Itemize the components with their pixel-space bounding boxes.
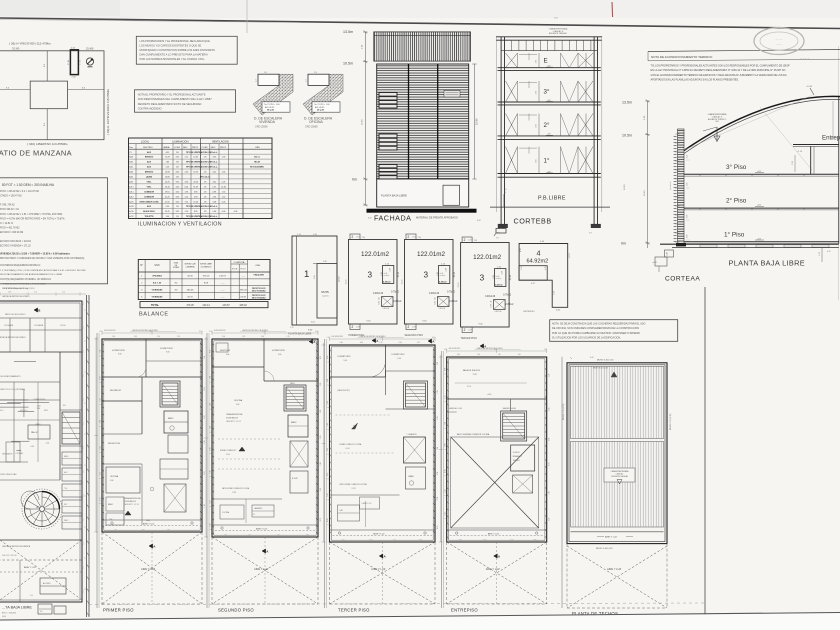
svg-text:300 cm: 300 cm	[254, 157, 260, 159]
svg-text:61.09: 61.09	[193, 186, 198, 188]
svg-text:2.40: 2.40	[327, 423, 329, 426]
svg-text:15.10: 15.10	[458, 282, 460, 288]
svg-text:1/5: 1/5	[204, 181, 207, 183]
svg-text:CORTEAA: CORTEAA	[665, 276, 700, 283]
svg-text:TRABAJA/PERSONA: TRABAJA/PERSONA	[226, 413, 243, 416]
svg-text:A1/4: A1/4	[129, 171, 133, 174]
svg-text:POR LAS NORMAS MUNICIPALES Y E: POR LAS NORMAS MUNICIPALES Y EL CODIGO C…	[140, 57, 206, 61]
svg-text:TOIL: TOIL	[109, 519, 113, 521]
svg-text:CON EL ACONDICIONAMIENTO TERMI: CON EL ACONDICIONAMIENTO TERMICO DE EDIF…	[651, 74, 787, 77]
svg-text:NOTA: SE DEJA CONSTANCIA QUE L: NOTA: SE DEJA CONSTANCIA QUE LAS COCHERA…	[552, 323, 645, 326]
svg-text:1.20: 1.20	[177, 336, 180, 338]
svg-text:0.98: 0.98	[212, 191, 216, 193]
svg-text:35.45: 35.45	[165, 211, 170, 213]
svg-text:ESTAR COMEDOR COCINA: ESTAR COMEDOR COCINA	[340, 443, 363, 446]
svg-text:0.25: 0.25	[827, 251, 831, 253]
svg-text:1.55: 1.55	[222, 191, 226, 193]
svg-text:A.8.2: A.8.2	[129, 195, 133, 198]
svg-text:4.15: 4.15	[100, 472, 102, 475]
svg-text:2.60: 2.60	[536, 124, 538, 128]
svg-text:1.20: 1.20	[204, 416, 206, 419]
svg-text:BAÑO: BAÑO	[108, 503, 114, 506]
svg-text:1.20: 1.20	[687, 235, 689, 238]
svg-text:AIRE Y LUZ: AIRE Y LUZ	[141, 567, 155, 571]
svg-text:8.66: 8.66	[83, 398, 85, 401]
svg-text:10.50: 10.50	[624, 184, 626, 190]
svg-text:10.58: 10.58	[362, 119, 364, 125]
svg-text:1.15: 1.15	[521, 266, 523, 270]
svg-text:3° Piso: 3° Piso	[726, 163, 747, 171]
svg-text:1/10: 1/10	[176, 181, 180, 183]
svg-text:AREA: AREA	[164, 146, 170, 149]
svg-text:VACIO S/ESTAR COMEDOR COCINA: VACIO S/ESTAR COMEDOR COCINA	[457, 433, 490, 436]
svg-text:0.90: 0.90	[340, 342, 343, 344]
svg-text:2: 2	[408, 235, 410, 239]
svg-text:AISLANTE T/AISLAC: AISLANTE T/AISLAC	[549, 32, 568, 35]
svg-text:MURO S.100 0.30: MURO S.100 0.30	[596, 548, 613, 550]
svg-text:4.36: 4.36	[501, 271, 503, 275]
svg-text:DORMITORIO: DORMITORIO	[392, 354, 405, 356]
svg-text:MURO 0.30 (4.30): MURO 0.30 (4.30)	[563, 403, 565, 420]
svg-text:ORD 25889: ORD 25889	[305, 126, 318, 129]
svg-text:( 340) LIBERTAD 113.355M: ( 340) LIBERTAD 113.355Mts	[27, 142, 68, 146]
svg-text:HB VOLUNTARIO: HB VOLUNTARIO	[250, 166, 265, 169]
svg-text:+13.45: +13.45	[806, 86, 813, 88]
svg-text:1.20: 1.20	[498, 354, 501, 356]
svg-text:2.40: 2.40	[261, 336, 264, 338]
svg-text:15.10: 15.10	[346, 279, 348, 285]
svg-text:3: 3	[480, 274, 485, 283]
svg-text:1/8: 1/8	[176, 177, 179, 179]
svg-text:11.55: 11.55	[165, 201, 170, 203]
svg-text:T/S.LOS PROPIETARIOS Y PROFESI: T/S.LOS PROPIETARIOS Y PROFESIONALES ACT…	[651, 65, 790, 68]
svg-text:CTADO: CTADO = 138.47 M2	[0, 195, 22, 198]
svg-text:LAVAD: LAVAD	[146, 176, 153, 179]
svg-text:AIRE Y LUZ: AIRE Y LUZ	[605, 536, 617, 539]
svg-text:5.39m2: 5.39m2	[439, 281, 447, 283]
svg-text:VIVIENDA 236.02 x 3.026 + 7.08: VIVIENDA 236.02 x 3.026 + 7.08/HER = 12.…	[0, 253, 71, 256]
svg-text:RECIBIDOR: RECIBIDOR	[2, 453, 13, 455]
svg-text:1/10: 1/10	[176, 201, 180, 203]
svg-text:A.7/6: A.7/6	[129, 210, 133, 213]
svg-text:122.01m2: 122.01m2	[361, 251, 390, 258]
svg-text:1.20: 1.20	[437, 417, 439, 420]
svg-text:+1.40: +1.40	[487, 394, 492, 396]
svg-text:4.15: 4.15	[444, 395, 446, 398]
svg-text:476.05: 476.05	[186, 304, 194, 307]
svg-text:1/10: 1/10	[176, 172, 180, 174]
svg-text:10.5m: 10.5m	[622, 134, 632, 138]
svg-text:1.2: 1.2	[306, 79, 308, 82]
svg-text:F.O.S.: F.O.S.	[232, 269, 238, 271]
svg-text:EJE DIVISORIO: EJE DIVISORIO	[104, 330, 116, 332]
svg-text:BAÑO: BAÑO	[291, 421, 297, 424]
svg-text:(100): (100)	[2, 616, 6, 618]
svg-text:2.86 4.15 1.: 2.86 4.15 1.20 2.40	[2, 555, 17, 557]
svg-text:COCINA: COCINA	[222, 511, 230, 514]
svg-text:3.10: 3.10	[437, 497, 439, 500]
svg-text:AIRE Y LUZ: AIRE Y LUZ	[24, 566, 36, 569]
svg-text:OFICINA: OFICINA	[234, 399, 243, 402]
svg-text:0.90: 0.90	[399, 342, 402, 344]
svg-text:LOCAL: LOCAL	[141, 140, 150, 143]
svg-text:0.90: 0.90	[327, 356, 329, 359]
svg-text:0.48 1.46: 0.48 1.46	[439, 308, 446, 310]
svg-text:ACCESO: ACCESO	[43, 582, 51, 585]
svg-text:3.10: 3.10	[199, 331, 202, 333]
svg-text:4.20: 4.20	[30, 446, 34, 448]
svg-text:3.10: 3.10	[320, 462, 322, 465]
svg-text:DESTINO: DESTINO	[143, 147, 153, 149]
svg-text:0.90: 0.90	[444, 368, 446, 371]
svg-text:OFICINA: OFICINA	[110, 475, 119, 478]
svg-text:HALL: HALL	[146, 519, 150, 522]
svg-text:4: 4	[537, 249, 541, 258]
svg-text:19.10: 19.10	[339, 276, 341, 282]
svg-text:ART. 4.6.2.2: ART. 4.6.2.2	[200, 176, 211, 179]
svg-text:A.7/6: A.7/6	[129, 205, 133, 208]
svg-text:0.90: 0.90	[360, 342, 363, 344]
svg-text:13.5m: 13.5m	[622, 101, 632, 105]
svg-text:TERCER PISO: TERCER PISO	[338, 608, 370, 613]
svg-text:AIRE Y LUZ: AIRE Y LUZ	[143, 523, 155, 526]
svg-text:1/5: 1/5	[204, 211, 207, 213]
svg-text:COEF: COEF	[174, 147, 181, 149]
svg-text:AIRE Y LUZ: AIRE Y LUZ	[254, 567, 268, 571]
svg-text:COCINA: COCINA	[16, 452, 24, 455]
svg-text:1.20: 1.20	[379, 342, 382, 344]
svg-text:AIRE Y LUZ: AIRE Y LUZ	[373, 533, 385, 536]
svg-text:1.50: 1.50	[100, 350, 102, 353]
svg-text:1° Piso: 1° Piso	[724, 230, 745, 238]
svg-text:0.18: 0.18	[477, 220, 481, 222]
svg-text:130.87: 130.87	[222, 304, 230, 307]
svg-text:MATERIAL DE FRENTE APROBADO: MATERIAL DE FRENTE APROBADO	[416, 217, 458, 220]
svg-text:E.D. 1.90: E.D. 1.90	[153, 283, 162, 285]
svg-text:4.20: 4.20	[37, 406, 41, 408]
svg-text:ALT=8°/45: ALT=8°/45	[315, 106, 325, 109]
svg-text:1.2: 1.2	[256, 79, 258, 82]
svg-text:0.75: 0.75	[320, 356, 322, 359]
svg-text:1.20: 1.20	[62, 292, 65, 294]
svg-text:90: 90	[435, 298, 437, 300]
svg-text:PATIO ESTAR COMEDOR COCINA: PATIO ESTAR COMEDOR COCINA	[222, 487, 250, 490]
svg-text:3.60: 3.60	[327, 379, 329, 382]
svg-text:PASO: PASO	[36, 423, 41, 426]
svg-text:LIMITE DE RETIRO DE FONDO: LIMITE DE RETIRO DE FONDO	[2, 296, 30, 298]
svg-text:4.15: 4.15	[100, 446, 102, 449]
svg-text:2: 2	[352, 235, 354, 239]
svg-text:3°: 3°	[544, 89, 550, 96]
svg-text:2.40: 2.40	[315, 331, 318, 333]
svg-text:26.40: 26.40	[346, 448, 350, 450]
svg-text:EJE DIVISORIO: EJE DIVISORIO	[449, 348, 461, 350]
svg-text:+6: +6	[504, 189, 506, 191]
svg-text:TIPO DE VENTILACION C/AIR s/: TIPO DE VENTILACION C/AIR s/LL.	[186, 161, 218, 164]
svg-text:8.66: 8.66	[83, 494, 85, 497]
svg-text:3.15: 3.15	[417, 342, 420, 344]
svg-text:8.66: 8.66	[83, 422, 85, 425]
svg-text:BAÑO: BAÑO	[409, 475, 415, 478]
svg-text:C/AISLAC: C/AISLAC	[616, 473, 624, 476]
svg-text:1.50: 1.50	[444, 512, 446, 515]
svg-text:SEGUNDO PISO: SEGUNDO PISO	[218, 608, 254, 613]
svg-text:80 FOT = 1.50 DEM = 300: 80 FOT = 1.50 DEM = 300 INAB./HA	[2, 183, 55, 187]
svg-text:1.50: 1.50	[37, 408, 41, 410]
svg-text:10.48: 10.48	[221, 186, 226, 188]
svg-text:2.20: 2.20	[114, 530, 117, 532]
svg-text:1/5: 1/5	[204, 201, 207, 203]
svg-text:P/OO = 4.07% MAYOR RETIRO RAT: P/OO = 4.07% MAYOR RETIRO RATE = 9% TOTA…	[0, 217, 65, 220]
svg-text:0.80: 0.80	[142, 530, 145, 532]
svg-text:1.35: 1.35	[222, 172, 226, 174]
svg-text:2.86: 2.86	[687, 215, 689, 218]
svg-text:122.01m2: 122.01m2	[473, 254, 502, 261]
svg-text:5.35: 5.35	[212, 186, 216, 188]
svg-text:COMEDOR: COMEDOR	[144, 191, 155, 193]
svg-text:1.52: 1.52	[222, 196, 226, 198]
svg-text:DEP: DEP	[64, 504, 67, 506]
svg-text:CONTRA INCENDIO: CONTRA INCENDIO	[138, 106, 162, 110]
svg-text:13.08: 13.08	[165, 172, 170, 174]
svg-text:90: 90	[491, 301, 493, 303]
svg-text:0.75: 0.75	[320, 518, 322, 521]
svg-text:2.60: 2.60	[536, 60, 538, 64]
svg-text:2: 2	[464, 328, 466, 332]
svg-text:2.86: 2.86	[437, 362, 439, 365]
svg-text:COCH: COCH	[60, 325, 66, 327]
svg-text:2.88m2: 2.88m2	[393, 300, 402, 303]
svg-text:DECRETO REGLAMENTARIO S/CTO DE: DECRETO REGLAMENTARIO S/CTO DE SEGURIDAD	[138, 102, 202, 106]
svg-text:1 X OFICINA(S) C/25L.) CON CUE: 1 X OFICINA(S) C/25L.) CON CUENTA EN LA …	[0, 269, 86, 272]
svg-text:14.86: 14.86	[165, 177, 170, 179]
svg-text:1.50: 1.50	[224, 535, 227, 537]
svg-text:1.70: 1.70	[412, 236, 415, 238]
svg-text:P.B.LIBRE: P.B.LIBRE	[538, 196, 566, 202]
svg-text:7.25: 7.25	[185, 201, 189, 203]
svg-text:10.19: 10.19	[193, 172, 198, 174]
svg-text:___: ___	[220, 296, 225, 298]
svg-text:___: ___	[240, 276, 245, 278]
svg-text:33.55: 33.55	[321, 290, 329, 294]
svg-text:8.66: 8.66	[83, 518, 85, 521]
svg-text:VIV/MORADOR: VIV/MORADOR	[226, 417, 239, 420]
svg-text:ILUMINACION: ILUMINACION	[172, 140, 189, 143]
svg-text:35.40: 35.40	[165, 186, 170, 188]
svg-text:0.90: 0.90	[444, 443, 446, 446]
svg-text:64.92m2: 64.92m2	[527, 259, 549, 265]
svg-text:9.06: 9.06	[110, 480, 113, 482]
svg-text:130.14: 130.14	[202, 304, 210, 307]
svg-text:A.6.1: A.6.1	[129, 185, 133, 188]
svg-text:TRABAJA/PERSONA: TRABAJA/PERSONA	[124, 497, 141, 500]
svg-text:366.46: 366.46	[187, 289, 194, 291]
svg-text:376.16: 376.16	[203, 276, 210, 278]
svg-text:0m: 0m	[352, 178, 357, 182]
svg-text:C/COMERCIO: C/COMERCIO	[201, 266, 213, 268]
svg-text:10.20: 10.20	[193, 201, 198, 203]
svg-text:4.15: 4.15	[100, 398, 102, 401]
svg-text:0.48x2.26: 0.48x2.26	[485, 296, 496, 298]
svg-text:0.42: 0.42	[212, 172, 216, 174]
svg-text:27.03: 27.03	[68, 59, 70, 65]
svg-text:1.50: 1.50	[327, 337, 330, 339]
svg-text:4.36: 4.36	[234, 211, 238, 213]
svg-text:PROYECTADO: 3 UNIDADES DE OFIC: PROYECTADO: 3 UNIDADES DE OFICINA Y UNA …	[0, 257, 84, 260]
svg-text:OBS.: OBS.	[255, 265, 261, 267]
svg-text:1/5: 1/5	[204, 172, 207, 174]
svg-text:1.50: 1.50	[444, 349, 447, 351]
svg-text:F.O.T.: F.O.T.	[241, 269, 247, 271]
svg-text:122.01m2: 122.01m2	[417, 251, 446, 258]
svg-text:15.10: 15.10	[510, 274, 512, 280]
svg-text:90: 90	[379, 298, 381, 300]
svg-text:HB. AE: HB. AE	[254, 161, 261, 164]
svg-text:13.5m: 13.5m	[343, 30, 353, 34]
svg-text:1/5: 1/5	[204, 191, 207, 193]
svg-text:1: 1	[304, 269, 309, 280]
svg-text:PATIO ESTAR COMEDOR COCINA: PATIO ESTAR COMEDOR COCINA	[340, 483, 368, 486]
svg-text:E: E	[544, 58, 548, 65]
svg-text:2°: 2°	[544, 122, 550, 129]
svg-text:17.88: 17.88	[232, 492, 236, 494]
svg-text:P1: P1	[129, 152, 131, 154]
svg-text:1/8: 1/8	[176, 152, 179, 154]
svg-text:BAÑO: BAÑO	[168, 417, 174, 420]
svg-text:VIVIL: VIVIL	[147, 186, 153, 188]
svg-text:8.66: 8.66	[83, 446, 85, 449]
svg-text:PLANTA BAJA LIBRE: PLANTA BAJA LIBRE	[288, 332, 311, 335]
svg-text:AIRE Y LUZ: AIRE Y LUZ	[486, 567, 500, 571]
svg-text:A1/2: A1/2	[129, 176, 133, 179]
svg-text:2.86: 2.86	[549, 408, 551, 411]
svg-text:1/5: 1/5	[204, 157, 207, 159]
svg-text:2E p=B: 2E p=B	[317, 110, 324, 112]
svg-text:VENTILACION: VENTILACION	[212, 140, 229, 143]
svg-text:DORMITORIO: DORMITORIO	[272, 350, 285, 352]
svg-text:PROY: PROY	[192, 147, 199, 149]
svg-text:3.03: 3.03	[185, 181, 189, 183]
svg-text:2.38: 2.38	[314, 276, 316, 280]
svg-text:1.70: 1.70	[468, 329, 471, 331]
svg-text:VIVIEN: VIVIEN	[173, 267, 180, 269]
svg-text:21.61: 21.61	[473, 374, 477, 376]
svg-text:9.06: 9.06	[118, 354, 122, 356]
svg-text:3.60: 3.60	[100, 377, 102, 380]
svg-text:ECTADO = 406.90 M2: ECTADO = 406.90 M2	[0, 231, 24, 234]
svg-text:ILUMINACION Y VENTILACION: ILUMINACION Y VENTILACION	[138, 221, 222, 227]
svg-text:4.36: 4.36	[389, 268, 391, 272]
svg-text:2: 2	[408, 325, 410, 329]
svg-text:TERCER PISO: TERCER PISO	[461, 337, 477, 340]
svg-text:B.VEST: B.VEST	[292, 478, 298, 480]
svg-text:P/OO = 236.02 M2 x 1.51 = 370.: P/OO = 236.02 M2 x 1.51 = 370.99M2 = 70.…	[0, 214, 63, 216]
svg-text:1.86: 1.86	[165, 162, 169, 164]
svg-text:1.70: 1.70	[468, 239, 471, 241]
svg-text:SUP/M2 CUB: SUP/M2 CUB	[185, 264, 197, 266]
svg-text:CORTEBB: CORTEBB	[514, 216, 552, 225]
svg-text:SU UTILIZACION POR LOS USUARIO: SU UTILIZACION POR LOS USUARIOS DE LA ED…	[552, 336, 621, 339]
svg-text:2.86: 2.86	[549, 491, 551, 494]
svg-text:4.36: 4.36	[222, 211, 226, 213]
svg-text:1.20: 1.20	[549, 374, 551, 377]
svg-text:(escalones): (escalones)	[670, 181, 672, 190]
svg-text:9.06: 9.06	[398, 358, 401, 360]
svg-text:ESPACIO: ESPACIO	[145, 171, 154, 174]
svg-text:2.40: 2.40	[209, 331, 212, 333]
svg-text:SUP ATERRAZADA S/RETIRO DE FON: SUP ATERRAZADA S/RETIRO DE FONDO	[2, 287, 35, 290]
svg-text:7.9: 7.9	[496, 238, 499, 240]
svg-text:ESPACIO: ESPACIO	[145, 156, 154, 159]
svg-text:0.75: 0.75	[320, 435, 322, 438]
svg-text:PATIO USO EXCLUSIVO: PATIO USO EXCLUSIVO	[5, 313, 26, 316]
svg-text:LOS PROPIETARIOS Y EL PROFESIO: LOS PROPIETARIOS Y EL PROFESIONAL DECLAR…	[140, 39, 211, 43]
svg-text:15.28: 15.28	[165, 157, 170, 159]
svg-text:COEF: COEF	[202, 147, 209, 149]
svg-text:15.10: 15.10	[454, 271, 456, 277]
svg-text:1.50: 1.50	[210, 426, 212, 429]
svg-text:1.20: 1.20	[242, 336, 245, 338]
svg-text:3: 3	[424, 271, 429, 280]
svg-text:2.20: 2.20	[277, 535, 280, 537]
svg-text:64.92: 64.92	[241, 296, 247, 298]
svg-text:A 4 E 1 ..: A 4 E 1 ..	[800, 57, 812, 61]
svg-text:1.20: 1.20	[204, 504, 206, 507]
svg-text:1/8: 1/8	[176, 216, 179, 218]
svg-text:2.86: 2.86	[320, 383, 322, 386]
svg-text:1/8: 1/8	[176, 162, 179, 164]
svg-text:1.35: 1.35	[222, 157, 226, 159]
svg-text:1.70: 1.70	[435, 301, 437, 304]
svg-text:1.20: 1.20	[204, 356, 206, 359]
svg-text:0m: 0m	[621, 242, 626, 246]
svg-text:3.10: 3.10	[549, 438, 551, 441]
svg-text:DORMITORIO: DORMITORIO	[160, 348, 173, 350]
svg-text:3%: 3%	[63, 405, 66, 407]
svg-text:COCH(S) REQUERIDO VIVIENDA: UN: COCH(S) REQUERIDO VIVIENDA: UN MODULO	[0, 278, 51, 281]
svg-text:3: 3	[368, 271, 373, 280]
svg-text:2.40: 2.40	[518, 354, 521, 356]
svg-text:3 MODULOS P/ VIVIENDA = 3 COCH: 3 MODULOS P/ VIVIENDA = 3 COCHERAS	[3, 283, 47, 286]
svg-text:15.10: 15.10	[402, 279, 404, 285]
svg-text:30.00: 30.00	[187, 276, 193, 278]
svg-text:2.86: 2.86	[8, 292, 11, 294]
svg-text:3.60: 3.60	[100, 420, 102, 423]
svg-text:TOTAL: TOTAL	[151, 304, 160, 307]
svg-text:8.66: 8.66	[83, 470, 85, 473]
svg-text:COCHERAS REQUERIDAS=MODULO: COCHERAS REQUERIDAS=MODULO	[0, 264, 40, 267]
svg-text:4.15: 4.15	[100, 497, 102, 500]
svg-text:___: ___	[220, 289, 225, 291]
svg-text:AIRE Y LUZ: AIRE Y LUZ	[607, 567, 621, 571]
svg-text:NEC: NEC	[211, 147, 216, 149]
svg-text:1.52: 1.52	[185, 157, 189, 159]
svg-text:NOTA:EL PROPIETARIO Y EL PROFE: NOTA:EL PROPIETARIO Y EL PROFESIONAL ACT…	[138, 93, 206, 97]
svg-text:5.39m2: 5.39m2	[383, 281, 391, 283]
svg-text:2.40: 2.40	[210, 376, 212, 379]
svg-text:UP: UP	[36, 507, 40, 509]
svg-text:0.75m2: 0.75m2	[503, 294, 512, 297]
svg-text:8.66: 8.66	[83, 542, 85, 545]
svg-text:2.86: 2.86	[320, 410, 322, 413]
svg-text:1.50: 1.50	[210, 524, 212, 527]
svg-text:0.48x2.26: 0.48x2.26	[429, 293, 440, 295]
svg-text:1.45: 1.45	[323, 261, 327, 263]
svg-text:VIVIENDA: VIVIENDA	[259, 120, 276, 124]
svg-text:6.06: 6.06	[185, 186, 189, 188]
svg-text:0.80: 0.80	[533, 540, 536, 542]
svg-text:1.50: 1.50	[210, 470, 212, 473]
